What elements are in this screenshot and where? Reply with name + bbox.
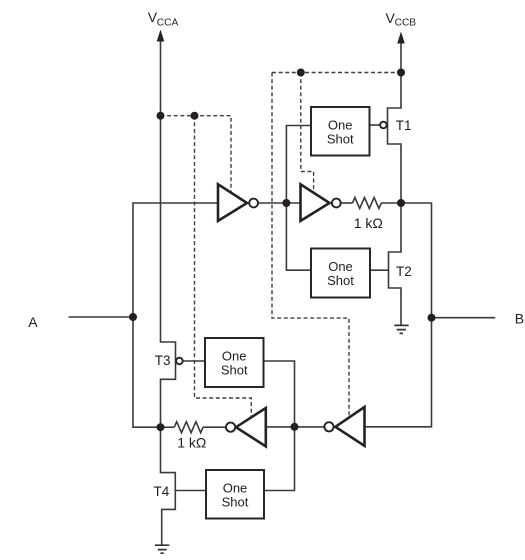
svg-text:Shot: Shot [327, 132, 354, 147]
svg-text:Shot: Shot [221, 363, 248, 378]
svg-text:B: B [515, 310, 524, 326]
svg-text:1 kΩ: 1 kΩ [177, 434, 206, 450]
svg-text:CCB: CCB [395, 17, 417, 28]
svg-text:One: One [328, 259, 353, 274]
svg-text:T4: T4 [154, 484, 170, 499]
svg-text:T2: T2 [396, 264, 412, 279]
svg-text:One: One [328, 117, 353, 132]
svg-text:A: A [28, 314, 38, 330]
svg-text:One: One [223, 480, 248, 495]
svg-text:T3: T3 [155, 353, 171, 368]
svg-text:Shot: Shot [222, 495, 249, 510]
svg-text:CCA: CCA [157, 17, 179, 28]
svg-text:T1: T1 [396, 118, 412, 133]
svg-text:One: One [222, 348, 247, 363]
svg-text:1 kΩ: 1 kΩ [354, 215, 383, 231]
svg-text:Shot: Shot [327, 273, 354, 288]
